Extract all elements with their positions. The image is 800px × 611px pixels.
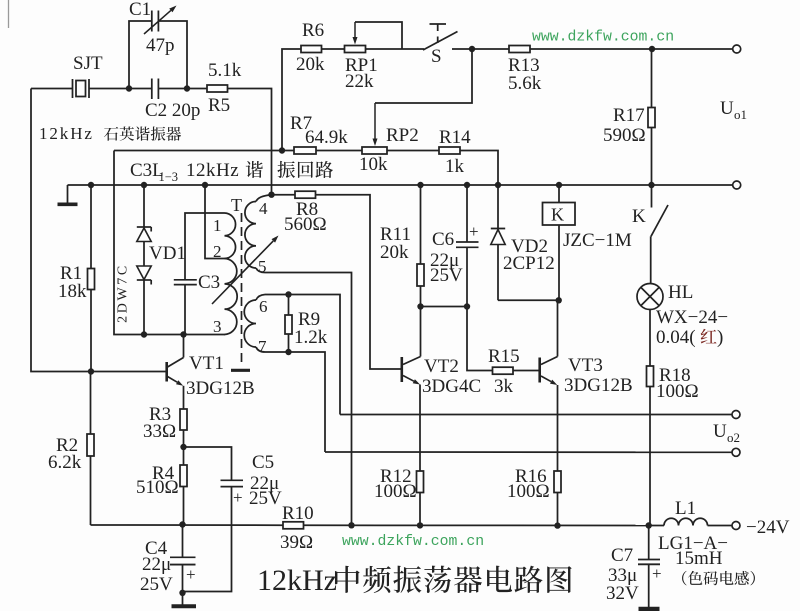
svg-text:25V: 25V (430, 265, 463, 286)
svg-text:R6: R6 (302, 20, 324, 41)
label 39Ω value of R10 (280, 532, 313, 553)
inductor L1 (649, 518, 732, 525)
wire R7 to RP2 (316, 150, 362, 152)
transformer adjustment arrow (212, 236, 279, 305)
label 100Ω value of R18 (656, 381, 699, 402)
svg-text:L1: L1 (675, 498, 696, 519)
svg-text:U: U (713, 421, 727, 442)
label HL (668, 282, 693, 303)
wire R13 to node D (530, 48, 652, 50)
crystal SJT (73, 79, 90, 98)
diode VD1 lower zener (137, 266, 151, 335)
capacitor C3 (174, 280, 197, 335)
label 22μ value of C5 (250, 473, 279, 494)
wire node G to C5 (184, 447, 232, 480)
label JZC-1M value of relay (563, 230, 632, 251)
wire pin5 down to negative rail (265, 273, 352, 526)
label 1.2k value of R9 (294, 327, 328, 348)
node J junction VD2 K VT3 (556, 297, 562, 303)
wire SJT to node A (89, 88, 129, 90)
label VT2 (424, 356, 459, 377)
label 560Ω value of R8 (284, 214, 327, 235)
watermark bottom (342, 534, 484, 550)
svg-text:0.04(: 0.04( (656, 327, 696, 348)
wire tuned-circuit left drop (114, 151, 225, 335)
label C7 plus (652, 564, 662, 583)
node A junction (126, 85, 132, 91)
capacitor C2 (152, 79, 159, 100)
label 2DW7C value of VD1 (116, 263, 131, 323)
label C7 (611, 545, 633, 566)
label R8 (296, 199, 318, 220)
resistor R5 (207, 85, 228, 92)
svg-text:1k: 1k (445, 156, 465, 177)
svg-text:5.1k: 5.1k (208, 60, 242, 81)
svg-text:o1: o1 (734, 107, 747, 122)
potentiometer RP2 wiper arrow (373, 103, 378, 146)
node I junction C4 bottom (179, 590, 185, 596)
label 3k value of R15 (494, 376, 514, 397)
svg-text:C5: C5 (252, 452, 274, 473)
label 10k value of RP2 (359, 154, 388, 175)
svg-text:2: 2 (213, 242, 222, 261)
wire node B to R5 (187, 88, 207, 90)
svg-text:C3: C3 (198, 272, 220, 293)
label pin 3 (213, 317, 222, 336)
resistor R18 (647, 366, 654, 526)
resistor R7 (294, 147, 316, 154)
junction R9 bottom (285, 349, 291, 355)
svg-text:590Ω: 590Ω (603, 125, 646, 146)
label S (431, 46, 442, 67)
node F junction base wire (88, 368, 94, 374)
svg-text:100Ω: 100Ω (656, 381, 699, 402)
label 1k value of R14 (445, 156, 465, 177)
transistor VT3 (540, 300, 558, 471)
resistor R9 (285, 295, 292, 353)
svg-text:+: + (186, 565, 196, 584)
label 100Ω value of R12 (374, 481, 417, 502)
wire R15 to VT3 base (513, 370, 540, 372)
wire S to node C (452, 48, 472, 50)
svg-text:3DG12B: 3DG12B (186, 378, 255, 399)
svg-text:100Ω: 100Ω (507, 481, 550, 502)
wire R11 to C6 bottom link (421, 306, 468, 308)
svg-text:1−3: 1−3 (159, 170, 179, 184)
label color-code inductor note (682, 571, 755, 586)
capacitor C7 (638, 526, 660, 608)
ground symbol below C4 (172, 593, 197, 607)
wire RP1 wiper to switch S (355, 22, 402, 49)
label -24V (746, 517, 790, 538)
potentiometer RP1 wiper arrow (353, 22, 358, 45)
label L1 (675, 498, 696, 519)
wire C6 column to R15 (467, 307, 493, 371)
label WX-24- value of HL (656, 307, 728, 328)
label LG1-A- value of L1 (658, 533, 728, 554)
svg-text:VT1: VT1 (189, 353, 224, 374)
resistor R13 (509, 46, 530, 53)
wire K switch to lamp (650, 236, 652, 283)
label R10 (282, 503, 314, 524)
svg-text:T: T (231, 195, 242, 215)
wire RP2 to R14 (387, 150, 439, 152)
junction pin 4 node (268, 192, 274, 198)
label R13 (508, 55, 540, 76)
label R6 (302, 20, 324, 41)
wire pin2 drop to primary (205, 185, 225, 259)
resistor R6 (301, 46, 322, 53)
switch K blade (651, 205, 668, 236)
svg-text:2DW7C: 2DW7C (116, 263, 131, 323)
svg-text:25V: 25V (140, 574, 173, 595)
svg-text:JZC−1M: JZC−1M (563, 230, 632, 251)
svg-text:18k: 18k (58, 281, 87, 302)
label pin 5 (258, 257, 267, 276)
potentiometer RP2 (362, 147, 387, 154)
label 3DG12B value of VT1 (186, 378, 255, 399)
label R15 (488, 346, 520, 367)
svg-text:560Ω: 560Ω (284, 214, 327, 235)
wire node C to R13 (472, 48, 509, 50)
svg-text:www.dzkfw.com.cn: www.dzkfw.com.cn (342, 534, 484, 550)
label 25V value of C4 (140, 574, 173, 595)
svg-text:www.dzkfw.com.cn: www.dzkfw.com.cn (532, 30, 674, 46)
node C junction (469, 46, 475, 52)
label 12kHz quartz resonator (39, 124, 181, 143)
svg-text:3DG12B: 3DG12B (564, 375, 633, 396)
svg-text:o2: o2 (727, 430, 740, 445)
svg-text:R10: R10 (282, 503, 314, 524)
wire left column down to VT1 base (31, 89, 167, 372)
resistor R10 (283, 522, 304, 529)
relay coil K (543, 185, 576, 300)
label C2 20p (145, 100, 200, 121)
label pin 2 (213, 242, 222, 261)
wire node A to C2 (129, 88, 152, 90)
svg-text:K: K (632, 206, 646, 227)
label C5 (252, 452, 274, 473)
svg-text:12kHz: 12kHz (39, 124, 94, 143)
label 20k value of R6 (296, 54, 325, 75)
junction VD1 top (141, 182, 147, 188)
svg-text:6: 6 (259, 297, 268, 316)
switch S contact left (402, 48, 424, 50)
svg-text:R5: R5 (208, 95, 230, 116)
label C3 (198, 272, 220, 293)
label 25V value of C5 (249, 488, 282, 509)
capacitor C1 (152, 11, 159, 32)
diode VD1 upper zener (137, 185, 151, 266)
label VT1 (189, 353, 224, 374)
svg-text:3DG4C: 3DG4C (422, 376, 481, 397)
capacitor C4 (170, 525, 196, 593)
diode VD2 (491, 185, 559, 300)
terminal Uo1 top (733, 45, 741, 53)
svg-text:3k: 3k (494, 376, 514, 397)
svg-text:1.2k: 1.2k (294, 327, 328, 348)
label 64.9k value of R7 (305, 127, 348, 148)
label 22μ value of C6 (430, 250, 459, 271)
label 15mH value of L1 (675, 548, 723, 569)
label R5 (208, 95, 230, 116)
switch S pushbutton actuator (430, 24, 447, 43)
svg-text:SJT: SJT (73, 53, 103, 74)
label pin 1 (213, 216, 222, 235)
svg-text:RP2: RP2 (386, 125, 419, 146)
label VD2 (511, 236, 548, 257)
svg-text:VT3: VT3 (568, 355, 603, 376)
wire C2 to node B (158, 88, 187, 90)
label C6 (432, 229, 454, 250)
potentiometer RP1 (345, 46, 366, 53)
wire pin6 to Uo2 top rail (265, 295, 340, 415)
label R11 (380, 224, 411, 245)
label R3 (149, 404, 171, 425)
svg-text:510Ω: 510Ω (136, 477, 179, 498)
svg-text:64.9k: 64.9k (305, 127, 348, 148)
resistor R1 (88, 185, 95, 372)
resistor R12 (417, 471, 424, 526)
label 33Ω value of R3 (143, 421, 176, 442)
junction C6 bottom (464, 303, 470, 309)
capacitor C5 (183, 480, 244, 591)
label R1 (60, 263, 82, 284)
junction R16 bottom (554, 522, 560, 528)
label 3DG4C value of VT2 (422, 376, 481, 397)
lamp HL (637, 284, 663, 310)
svg-text:22μ: 22μ (142, 554, 171, 575)
label C4 plus (186, 565, 196, 584)
resistor R3 (180, 409, 187, 447)
svg-text:15mH: 15mH (675, 548, 723, 569)
junction relay K top (556, 182, 562, 188)
capacitor C1 trimmer arrow (144, 6, 177, 35)
resistor R17 (648, 49, 655, 185)
label 22μ value of C4 (142, 554, 171, 575)
label 18k value of R1 (58, 281, 87, 302)
resistor R14 (439, 147, 460, 154)
label R18 (659, 365, 691, 386)
svg-text:39Ω: 39Ω (280, 532, 313, 553)
transformer T core (231, 213, 250, 370)
svg-text:1: 1 (213, 216, 222, 235)
node E junction R6 branch (279, 147, 285, 153)
transformer T secondary winding 6-7 (244, 295, 265, 353)
ground symbol top-left (58, 185, 78, 204)
svg-text:7: 7 (258, 337, 267, 356)
wire R6 branch riser (282, 49, 301, 151)
watermark top (532, 30, 674, 46)
label Uo2 (713, 421, 740, 445)
title 12kHz IF oscillator circuit diagram (257, 564, 572, 597)
wire R8 to VT2 base (316, 195, 401, 369)
svg-text:22k: 22k (345, 71, 374, 92)
label R7 (290, 113, 312, 134)
wire node C down to RP2 wiper (375, 49, 472, 103)
label 3DG12B value of VT3 (564, 375, 633, 396)
label 2CP12 value of VD2 (503, 253, 555, 274)
label 6.2k value of R2 (48, 452, 82, 473)
node B junction (184, 85, 190, 91)
switch S blade (423, 32, 458, 51)
label 33μ value of C7 (608, 565, 637, 586)
label K switch (632, 206, 646, 227)
terminal Uo2 top (732, 411, 740, 419)
junction C6 top (464, 182, 470, 188)
svg-text:+: + (652, 564, 662, 583)
wire pin7 to Uo2 bottom rail (265, 352, 325, 452)
label R14 (439, 127, 471, 148)
junction R11 bottom (417, 303, 423, 309)
svg-text:10k: 10k (359, 154, 388, 175)
svg-text:6.2k: 6.2k (48, 452, 82, 473)
svg-text:12kHz: 12kHz (186, 160, 239, 181)
wire R5 to resonant-circuit feed (228, 89, 272, 195)
svg-text:R15: R15 (488, 346, 520, 367)
capacitor C6 (456, 185, 479, 307)
wire pin1 to C3 top (185, 213, 225, 280)
svg-text:+: + (233, 488, 243, 507)
svg-text:100Ω: 100Ω (374, 481, 417, 502)
wire resonant feed line left segment (114, 150, 294, 152)
junction R12 bottom (417, 522, 423, 528)
resistor R11 (417, 185, 424, 307)
junction VD2 top (495, 182, 501, 188)
resistor R8 (295, 191, 316, 198)
resistor R4 (180, 447, 187, 525)
resistor R15 (493, 367, 514, 374)
label C1 (129, 0, 151, 20)
svg-text:U: U (720, 98, 734, 119)
transformer T primary winding 1-2 (225, 213, 236, 259)
label 100Ω value of R16 (507, 481, 550, 502)
capacitor C1 branch left wire (129, 21, 152, 89)
svg-text:32V: 32V (606, 583, 639, 604)
svg-text:33Ω: 33Ω (143, 421, 176, 442)
label R4 (152, 463, 175, 484)
label C5 plus (233, 488, 243, 507)
wire node D to Uo1 top terminal (652, 48, 733, 50)
svg-text:R14: R14 (439, 127, 471, 148)
svg-text:C7: C7 (611, 545, 633, 566)
junction R17 bottom (648, 182, 654, 188)
junction C3 bottom VT1 collector (180, 331, 186, 337)
svg-text:C6: C6 (432, 229, 454, 250)
label 22k value of RP1 (345, 71, 374, 92)
label R12 (380, 466, 412, 487)
label C4 (145, 538, 168, 559)
resistor R16 (554, 471, 561, 526)
node D junction (649, 46, 655, 52)
svg-text:WX−24−: WX−24− (656, 307, 728, 328)
wire R14 to ground rail (460, 151, 498, 186)
wire Uo2 top rail (340, 414, 732, 416)
svg-text:+: + (469, 222, 479, 241)
svg-text:20k: 20k (380, 242, 409, 263)
label VD1 (149, 243, 186, 264)
junction R11 top (417, 182, 423, 188)
wire left rail from SJT to C2 node (31, 88, 73, 90)
transistor VT2 (402, 307, 421, 472)
terminal Uo2 bottom (732, 448, 740, 456)
junction R9 top (285, 291, 291, 297)
label RP2 (386, 125, 419, 146)
node H junction C4 top (179, 521, 185, 527)
label R9 (298, 309, 320, 330)
label 32V value of C7 (606, 583, 639, 604)
svg-text:4: 4 (259, 199, 268, 218)
svg-text:47p: 47p (146, 35, 175, 56)
label R16 (515, 466, 547, 487)
label T (231, 195, 242, 215)
resistor R2 (87, 372, 94, 526)
svg-text:HL: HL (668, 282, 693, 303)
wire common ground rail (68, 184, 733, 186)
ground symbol below C7 (639, 607, 660, 611)
junction VD1 bottom (141, 331, 147, 337)
wire R6 to RP1 (322, 48, 345, 50)
switch K contact wire (651, 185, 653, 208)
label C6 plus (469, 222, 479, 241)
svg-text:20k: 20k (296, 54, 325, 75)
terminal Uo1 bottom (733, 181, 741, 189)
wire negative rail middle segment (304, 524, 649, 526)
svg-text:C2 20p: C2 20p (145, 100, 200, 121)
label 0.04 red value of HL (656, 327, 723, 348)
junction pin2 drop (202, 182, 208, 188)
svg-text:VT2: VT2 (424, 356, 459, 377)
junction R1 top (88, 182, 94, 188)
svg-text:K: K (551, 205, 564, 225)
label 5.1k value of R5 (208, 60, 242, 81)
svg-text:3: 3 (213, 317, 222, 336)
wire negative rail left segment (91, 524, 284, 526)
label pin 4 (259, 199, 268, 218)
transformer T primary winding 2-3 (225, 259, 238, 335)
label 590Ω value of R17 (603, 125, 646, 146)
capacitor C1 branch right wire (158, 21, 187, 89)
terminal -24V (732, 522, 740, 530)
label 25V value of C6 (430, 265, 463, 286)
label SJT (73, 53, 103, 74)
label RP1 (345, 55, 378, 76)
label 510Ω value of R4 (136, 477, 179, 498)
label pin 6 (259, 297, 268, 316)
svg-text:−24V: −24V (746, 517, 790, 538)
svg-text:C1: C1 (129, 0, 151, 20)
label 20k value of R11 (380, 242, 409, 263)
svg-text:): ) (717, 327, 723, 348)
label 47p value of C1 (146, 35, 175, 56)
scan edge artifact top-left (8, 0, 10, 28)
label VT3 (568, 355, 603, 376)
label resonant circuit box text (130, 160, 333, 184)
label pin 7 (258, 337, 267, 356)
label R2 (56, 435, 78, 456)
wire lamp to R18 (649, 310, 651, 367)
transformer T secondary winding 4-5 (245, 195, 272, 273)
svg-text:VD1: VD1 (149, 243, 186, 264)
junction C7 top (646, 522, 652, 528)
junction pin5 column bottom (348, 522, 354, 528)
svg-text:5.6k: 5.6k (508, 73, 542, 94)
svg-text:12kHz: 12kHz (257, 564, 337, 597)
label Uo1 (720, 98, 747, 122)
wire Uo2 bottom rail (325, 451, 732, 453)
transistor VT1 (167, 335, 184, 410)
label R17 (613, 105, 645, 126)
